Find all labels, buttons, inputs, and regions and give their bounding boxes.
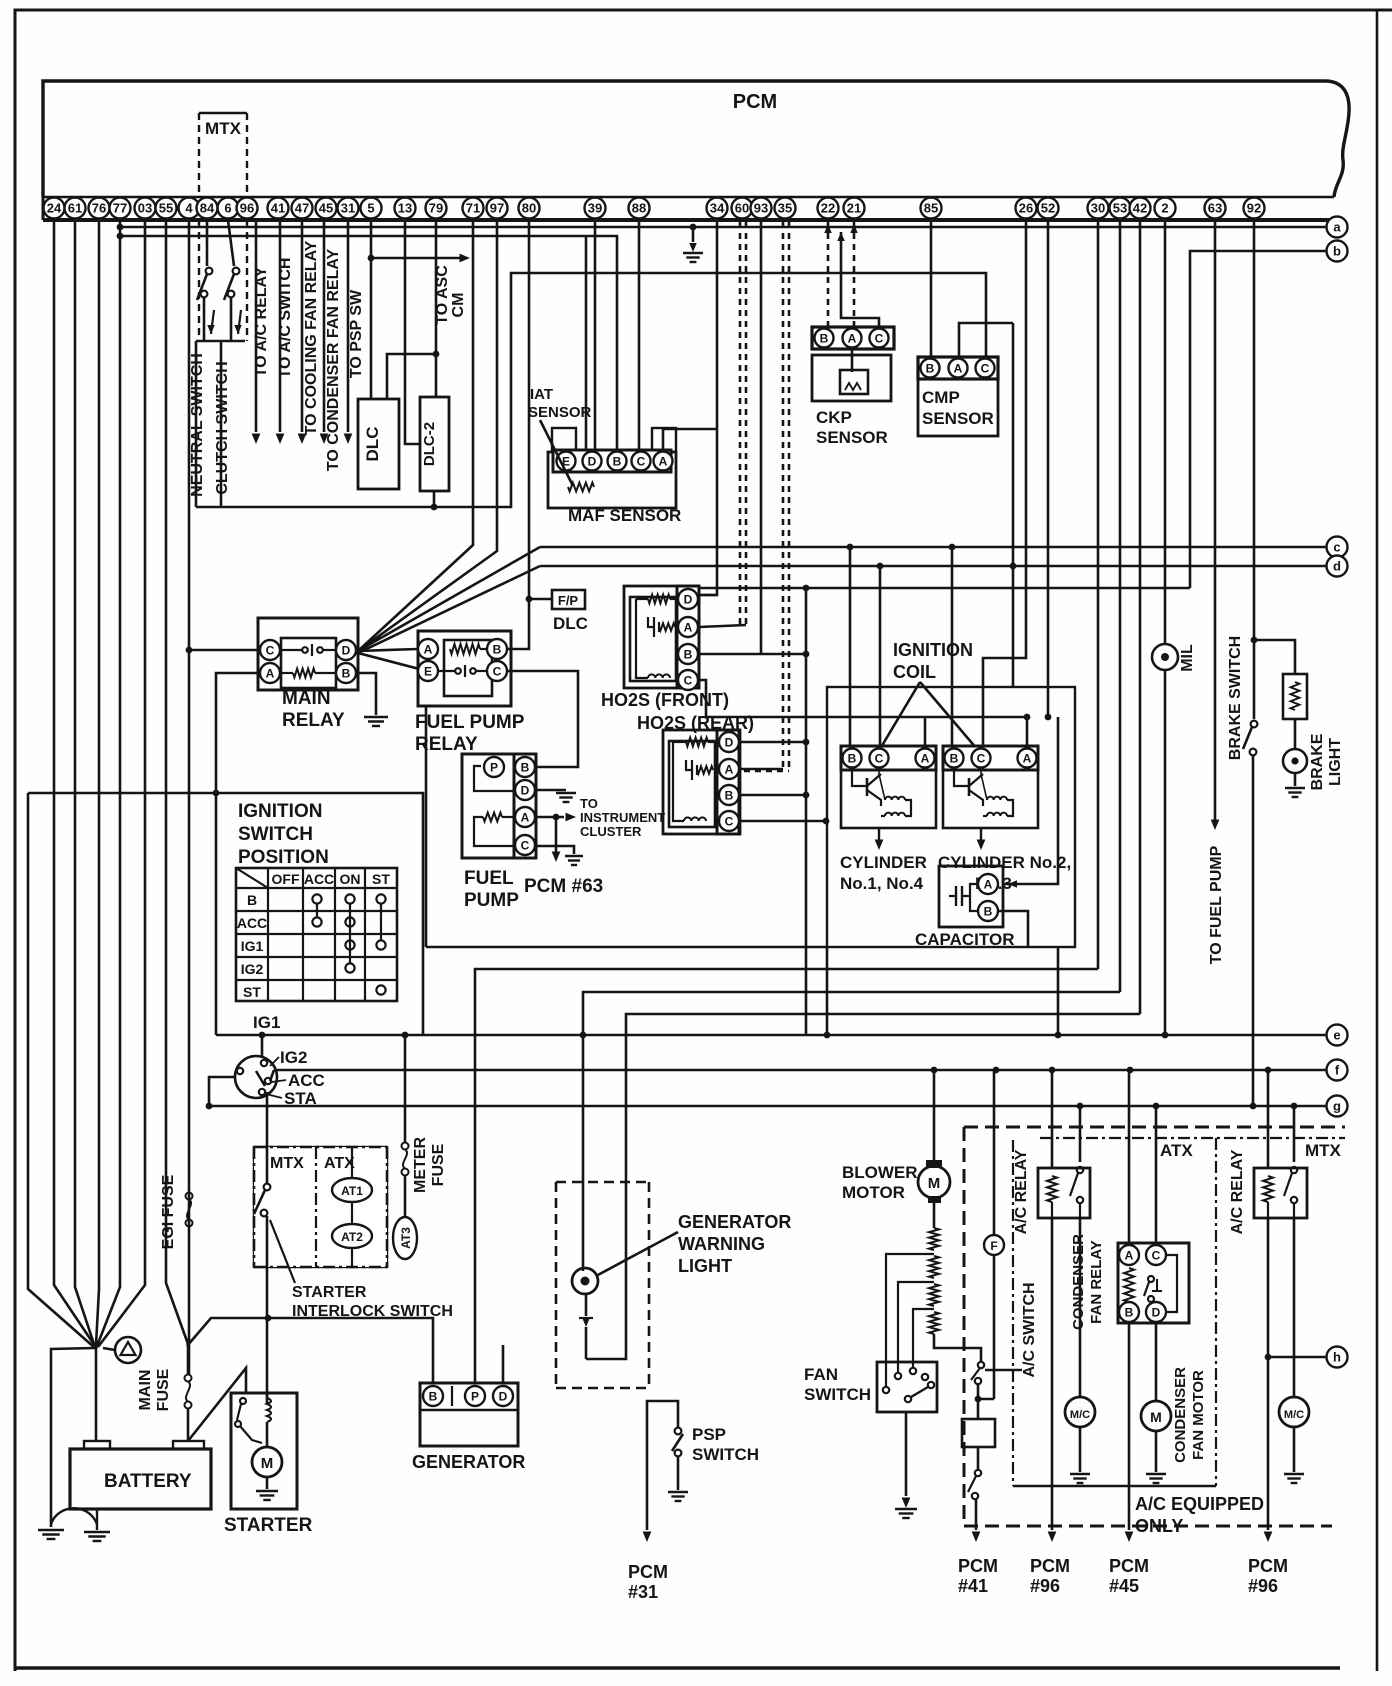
svg-text:ONLY: ONLY [1135, 1516, 1183, 1536]
svg-text:DLC-2: DLC-2 [421, 422, 438, 466]
HO2S rear pin C [719, 811, 739, 831]
wire rear B stub [740, 794, 806, 797]
HO2S front pin D [678, 589, 698, 609]
wire resistor to lamp [1294, 719, 1297, 749]
wire pin30 drop [1097, 220, 1100, 969]
svg-text:No.1, No.4: No.1, No.4 [840, 874, 924, 893]
svg-text:f: f [1335, 1063, 1340, 1078]
wire pin39 to MAF D [594, 220, 597, 450]
ignition coil 2 body [943, 770, 1038, 828]
wire to cooling fan relay [301, 220, 304, 432]
svg-text:g: g [1333, 1099, 1341, 1114]
wire right A/C relay coil down to PCM96 and bus h [1267, 1218, 1270, 1530]
wire pin35 shielded drop to rear A [782, 222, 785, 771]
svg-text:79: 79 [429, 201, 443, 216]
wire pin22 shielded drop [827, 222, 830, 330]
fuel pump pin P [484, 757, 504, 777]
wire capacitor B out [998, 911, 1028, 947]
svg-text:AT1: AT1 [341, 1184, 363, 1198]
F/P DLC box [552, 590, 585, 609]
wire CMP A riser [959, 323, 1013, 357]
main fuse wire [187, 1340, 190, 1375]
svg-text:4: 4 [185, 201, 193, 216]
wire pin93 to front B [760, 220, 763, 654]
wire bus b [1190, 251, 1326, 588]
svg-text:M: M [1150, 1409, 1162, 1425]
ignition coil 1 transistor [852, 770, 867, 786]
svg-text:A: A [659, 454, 668, 468]
PCM pin 47 [292, 198, 313, 219]
wire pin26 drop to coil2 C [983, 220, 1026, 746]
A/C relay contact [1077, 1167, 1083, 1173]
svg-text:METER: METER [412, 1137, 429, 1193]
svg-text:IGNITION: IGNITION [893, 640, 973, 660]
wire to ASC CM [371, 257, 460, 260]
PCM pin 60 [732, 198, 753, 219]
MC compressor clutch left [1065, 1397, 1095, 1427]
PCM pin 35 [775, 198, 796, 219]
ground stub on bus a [690, 224, 697, 231]
MC compressor clutch right [1279, 1397, 1309, 1427]
A/C relay coil [1047, 1176, 1057, 1202]
MAF pin A [654, 452, 673, 471]
wire pin77 to MAF B [120, 236, 617, 450]
svg-text:HO2S (FRONT): HO2S (FRONT) [601, 690, 729, 710]
wire pin34 to HO2S front D and MAF A [701, 220, 717, 595]
svg-text:STARTER: STARTER [224, 1515, 313, 1536]
interlock switch MTX [264, 1184, 271, 1191]
svg-text:96: 96 [240, 201, 254, 216]
PCM pin 45 [316, 198, 337, 219]
svg-text:ATX: ATX [324, 1155, 355, 1172]
svg-text:FUEL: FUEL [464, 868, 514, 889]
svg-text:MTX: MTX [1305, 1141, 1342, 1160]
PCM pin 77 [110, 198, 131, 219]
HO2S rear pin B [719, 785, 739, 805]
PCM pin 4 [179, 198, 200, 219]
A/C relay box right [1254, 1168, 1307, 1218]
wire pin85 to CMP B [930, 220, 933, 357]
wire bus e (IG1) [216, 1034, 1326, 1037]
MAF pin D [583, 452, 602, 471]
A/C switch tie [978, 1384, 994, 1399]
svg-text:C: C [266, 643, 275, 657]
wire neutral/clutch to DLC net [195, 341, 198, 507]
svg-text:B: B [984, 904, 993, 918]
PCM pin 22 [818, 198, 839, 219]
PCM pin 52 [1038, 198, 1059, 219]
svg-text:B: B [493, 642, 502, 656]
node g circle [1327, 1096, 1348, 1117]
main relay box [258, 618, 358, 690]
capacitor box [939, 866, 1003, 927]
CMP sensor body [918, 379, 998, 436]
ignition coil 1 pin C [870, 749, 889, 768]
svg-text:D: D [342, 643, 351, 657]
svg-text:A: A [424, 642, 433, 656]
wire bus f to A/C relay coil [1049, 1067, 1056, 1074]
PCM pin 21 [844, 198, 865, 219]
svg-text:IG2: IG2 [280, 1048, 307, 1067]
fan switch box [877, 1362, 937, 1412]
wire fuel pump A to PCM 63 [555, 817, 558, 852]
wire DLC-2 to ground net [433, 491, 436, 507]
svg-text:A: A [1125, 1248, 1134, 1262]
wire pin4 junction to main relay C [186, 647, 193, 654]
PCM pin 41 [268, 198, 289, 219]
wire HO2S front C to coil box [699, 680, 1028, 717]
svg-text:C: C [981, 361, 990, 375]
CMP pin B [921, 359, 940, 378]
generator pin B [423, 1386, 443, 1406]
wire pin2 to MIL [1164, 220, 1167, 644]
starter switch [240, 1398, 246, 1404]
PCM pin 55 [156, 198, 177, 219]
svg-text:60: 60 [735, 201, 749, 216]
wire pin88 to MAF C [638, 220, 641, 450]
svg-text:FUSE: FUSE [155, 1368, 172, 1411]
wire to condenser fan relay [323, 220, 326, 432]
svg-text:OFF: OFF [272, 871, 300, 887]
ignition key switch [235, 1056, 277, 1098]
condenser fan relay right loop [1166, 1255, 1177, 1312]
ignition coil 1 output arrow [878, 828, 880, 840]
ignition coil 2 output arrow [980, 828, 982, 840]
fan switch contacts [883, 1387, 889, 1393]
wire pin21 shielded drop [853, 222, 856, 330]
PCM pin 63 [1205, 198, 1226, 219]
svg-text:21: 21 [847, 201, 861, 216]
svg-text:LIGHT: LIGHT [1327, 738, 1344, 786]
wire pin61 drop [75, 220, 95, 1347]
wire A/C relay contact to MC [1079, 1218, 1082, 1398]
svg-text:FAN MOTOR: FAN MOTOR [1190, 1370, 1207, 1460]
AT2 ellipse [332, 1224, 372, 1248]
interlock pointer [270, 1220, 295, 1283]
svg-text:DLC: DLC [553, 614, 588, 633]
wire key STA drop to interlock switch [266, 1092, 269, 1180]
PCM pin 6 [218, 198, 239, 219]
wire HO2S front A to shield [699, 625, 746, 627]
wire pin80 drop to F/P DLC junction and relay B [508, 220, 529, 649]
ignition coil 2 transistor [954, 770, 969, 786]
svg-text:MOTOR: MOTOR [842, 1183, 905, 1202]
A/C switch body box [977, 1399, 980, 1419]
PCM pin 42 [1130, 198, 1151, 219]
svg-text:M: M [261, 1455, 274, 1472]
svg-text:IG1: IG1 [241, 938, 264, 954]
wire key switch B to bus g [209, 1077, 236, 1106]
fuel pump internal wiring [474, 766, 513, 791]
PCM pin 39 [585, 198, 606, 219]
condenser fan relay pin B [1119, 1302, 1139, 1322]
blower motor [918, 1166, 950, 1198]
svg-text:D: D [1152, 1305, 1161, 1319]
svg-text:C: C [521, 838, 530, 852]
PCM pin 53 [1110, 198, 1131, 219]
CKP pin C [870, 329, 889, 348]
svg-text:A/C RELAY: A/C RELAY [1229, 1149, 1246, 1234]
wire right relay contact to MC [1293, 1218, 1296, 1398]
svg-text:E: E [424, 664, 432, 678]
wire 1014 run to warning light return [586, 1014, 1140, 1359]
wire pin42 drop [1139, 220, 1142, 1014]
fuel pump box [462, 754, 536, 858]
svg-text:MAIN: MAIN [137, 1370, 154, 1411]
wire to A/C relay [255, 220, 258, 432]
fuel pump enclosure bottom line [426, 946, 827, 949]
svg-text:B: B [820, 331, 829, 345]
wire coil2 B riser to bus c [951, 547, 954, 746]
node a circle [1327, 217, 1348, 238]
condenser fan relay pin C [1146, 1245, 1166, 1265]
wire A/C relay coil to PCM96 [1051, 1218, 1054, 1530]
svg-text:CKP: CKP [816, 408, 852, 427]
svg-text:B: B [950, 751, 959, 765]
PCM pin 31 [338, 198, 359, 219]
starter interlock dash-dot box [254, 1147, 387, 1267]
wire coil box to bus e [1057, 947, 1060, 1035]
resistor taps [886, 1254, 934, 1386]
svg-text:SWITCH: SWITCH [692, 1445, 759, 1464]
fuel pump pin B [515, 757, 535, 777]
clutch switch [228, 220, 234, 266]
svg-text:ATX: ATX [1160, 1141, 1193, 1160]
table contacts [312, 894, 321, 903]
main relay pin D [336, 640, 356, 660]
svg-text:B: B [725, 788, 734, 802]
svg-text:52: 52 [1041, 201, 1055, 216]
HO2S common shield riser [805, 588, 808, 1035]
svg-text:PCM: PCM [958, 1556, 998, 1576]
wire brake switch to bus g [1252, 755, 1255, 1106]
svg-text:FUEL PUMP: FUEL PUMP [415, 712, 525, 733]
CKP sensor body [812, 355, 891, 401]
battery box [70, 1449, 211, 1509]
HO2S rear coil [684, 817, 706, 821]
wire main relay B to ground [357, 673, 376, 715]
svg-text:C: C [1152, 1248, 1161, 1262]
main relay pin C [260, 640, 280, 660]
main relay pin A [260, 663, 280, 683]
svg-text:A: A [684, 620, 693, 634]
HO2S front heater resistor [636, 598, 648, 600]
svg-text:TO A/C RELAY: TO A/C RELAY [253, 266, 270, 377]
wire node to left ground [51, 1348, 95, 1527]
svg-text:39: 39 [588, 201, 602, 216]
wire pin76 drop [96, 220, 99, 1345]
svg-text:CMP: CMP [922, 388, 960, 407]
svg-text:13: 13 [398, 201, 412, 216]
warning light pointer [596, 1232, 678, 1276]
wire harness branch at 793 to battery bracket [213, 790, 220, 797]
svg-text:#41: #41 [958, 1576, 988, 1596]
ignition coil 1 windings [885, 797, 905, 800]
PCM pin 71 [463, 198, 484, 219]
capacitor element [955, 886, 957, 906]
HO2S front coil [648, 674, 670, 678]
svg-text:#31: #31 [628, 1582, 658, 1602]
ignition coil 2 pin B [945, 749, 964, 768]
svg-text:COIL: COIL [893, 662, 936, 682]
svg-text:GENERATOR: GENERATOR [412, 1452, 525, 1472]
CMP sensor connector [918, 357, 998, 379]
MTX option dashed box [199, 112, 247, 114]
wire HO2S front D riser [699, 594, 717, 597]
wire key ACC to bus f [270, 1070, 274, 1081]
svg-text:#45: #45 [1109, 1576, 1139, 1596]
svg-text:61: 61 [68, 201, 82, 216]
inline connector F [984, 1235, 1004, 1255]
MAF pin E [557, 452, 576, 471]
svg-text:ACC: ACC [288, 1071, 325, 1090]
svg-text:TO COOLING FAN RELAY: TO COOLING FAN RELAY [303, 240, 320, 435]
svg-text:C: C [875, 331, 884, 345]
svg-text:PCM: PCM [1030, 1556, 1070, 1576]
capacitor pin B [978, 901, 998, 921]
svg-text:INSTRUMENT: INSTRUMENT [580, 810, 665, 825]
svg-text:MTX: MTX [270, 1155, 304, 1172]
svg-text:55: 55 [159, 201, 173, 216]
PCM pin 80 [519, 198, 540, 219]
wire fuel pump D to ground [536, 789, 566, 792]
svg-text:WARNING: WARNING [678, 1234, 765, 1254]
ATX wire [351, 1147, 353, 1178]
wire battery to starter diagonal [188, 1368, 246, 1441]
wire lamp down [585, 1294, 588, 1316]
generator box [420, 1383, 518, 1446]
PCM pin 26 [1016, 198, 1037, 219]
svg-text:ON: ON [340, 871, 361, 887]
svg-text:35: 35 [778, 201, 792, 216]
svg-text:34: 34 [710, 201, 725, 216]
PCM module box [43, 81, 1349, 197]
svg-text:2: 2 [1161, 201, 1168, 216]
svg-text:BRAKE SWITCH: BRAKE SWITCH [1227, 636, 1244, 760]
svg-text:h: h [1333, 1350, 1341, 1365]
brake switch [1251, 721, 1258, 728]
CMP pin A [949, 359, 968, 378]
wire bus g to condenser fan relay C [1153, 1103, 1160, 1110]
svg-text:P: P [471, 1389, 479, 1403]
svg-text:PUMP: PUMP [464, 890, 519, 911]
PCM pin 92 [1244, 198, 1265, 219]
resistor bottom to switch [934, 1334, 981, 1361]
wire bus f to blower [931, 1067, 938, 1074]
svg-text:PCM: PCM [628, 1562, 668, 1582]
svg-text:26: 26 [1019, 201, 1033, 216]
svg-text:B: B [342, 666, 351, 680]
svg-text:IG1: IG1 [253, 1013, 280, 1032]
svg-text:IG2: IG2 [241, 961, 264, 977]
svg-text:GENERATOR: GENERATOR [678, 1212, 791, 1232]
wire MAF E riser [585, 236, 588, 450]
fuel pump relay box [418, 631, 511, 706]
PCM pin 84 [197, 198, 218, 219]
A/C inner dash-dot partition [1040, 1137, 1345, 1139]
svg-text:EGI FUSE: EGI FUSE [160, 1174, 177, 1249]
svg-text:AT3: AT3 [399, 1227, 413, 1249]
svg-text:5: 5 [367, 201, 374, 216]
blower resistor chain [933, 1196, 936, 1228]
HO2S front pin A [678, 617, 698, 637]
wire coil common to capacitor A [1004, 717, 1058, 884]
brake light resistor [1283, 674, 1307, 719]
svg-text:SENSOR: SENSOR [816, 428, 888, 447]
wire relay B to PCM45 [1128, 1323, 1131, 1530]
svg-text:85: 85 [924, 201, 938, 216]
condenser fan relay box [1118, 1243, 1189, 1323]
wire bus f to right A/C relay [1265, 1067, 1272, 1074]
fuel pump relay coil [450, 644, 480, 654]
wire bus g [209, 1105, 1326, 1108]
svg-text:53: 53 [1113, 201, 1127, 216]
svg-text:80: 80 [522, 201, 536, 216]
svg-text:C: C [684, 673, 693, 687]
svg-text:A: A [984, 877, 993, 891]
svg-text:M/C: M/C [1070, 1409, 1090, 1421]
A/C switch contacts [978, 1362, 984, 1368]
PCM pin 96 [237, 198, 258, 219]
PCM pin 5 [361, 198, 382, 219]
svg-text:A: A [725, 762, 734, 776]
wire pin79 drop [435, 220, 438, 397]
switch bottom bracket [203, 297, 206, 341]
CKP pin B [815, 329, 834, 348]
generator pin D [493, 1386, 513, 1406]
svg-text:31: 31 [341, 201, 355, 216]
svg-text:FAN: FAN [804, 1365, 838, 1384]
svg-text:B: B [521, 760, 530, 774]
wire pin53 drop [1119, 220, 1122, 992]
wire PSP feed [647, 1401, 678, 1530]
svg-text:P: P [490, 760, 498, 774]
AT1 ellipse [332, 1178, 372, 1202]
svg-text:SWITCH: SWITCH [804, 1385, 871, 1404]
svg-text:63: 63 [1208, 201, 1222, 216]
wire to A/C switch [279, 220, 282, 432]
A/C relay right contact [1291, 1167, 1297, 1173]
MAF IAT thermistor [568, 483, 594, 492]
F/P DLC stub [529, 598, 552, 601]
svg-text:D: D [499, 1389, 508, 1403]
main fuse [185, 1375, 192, 1382]
svg-text:42: 42 [1133, 201, 1147, 216]
svg-text:C: C [637, 454, 646, 468]
svg-text:TO: TO [580, 796, 598, 811]
wire MIL to bus e [1164, 670, 1167, 1035]
svg-text:A: A [848, 331, 857, 345]
ground below main relay [364, 716, 388, 718]
rear A shield dashed link [744, 770, 789, 773]
A/C switch lower contact [977, 1447, 980, 1469]
ignition coil 1 connector [841, 746, 936, 770]
wire pin03 drop [98, 220, 145, 1347]
starter coil [266, 1393, 269, 1398]
EGI fuse [186, 1193, 193, 1200]
svg-text:F/P: F/P [558, 593, 579, 608]
node e circle [1327, 1025, 1348, 1046]
HO2S rear box [663, 730, 740, 834]
PCM pin 61 [65, 198, 86, 219]
wire generator B feed line [187, 1318, 433, 1383]
PCM pin 24 [44, 198, 65, 219]
svg-text:PCM: PCM [733, 91, 777, 113]
wire harness branch 793 right [216, 793, 423, 1035]
wire bus f [274, 1069, 1326, 1072]
svg-text:D: D [684, 592, 693, 606]
A/C inner partition [1012, 1140, 1014, 1486]
